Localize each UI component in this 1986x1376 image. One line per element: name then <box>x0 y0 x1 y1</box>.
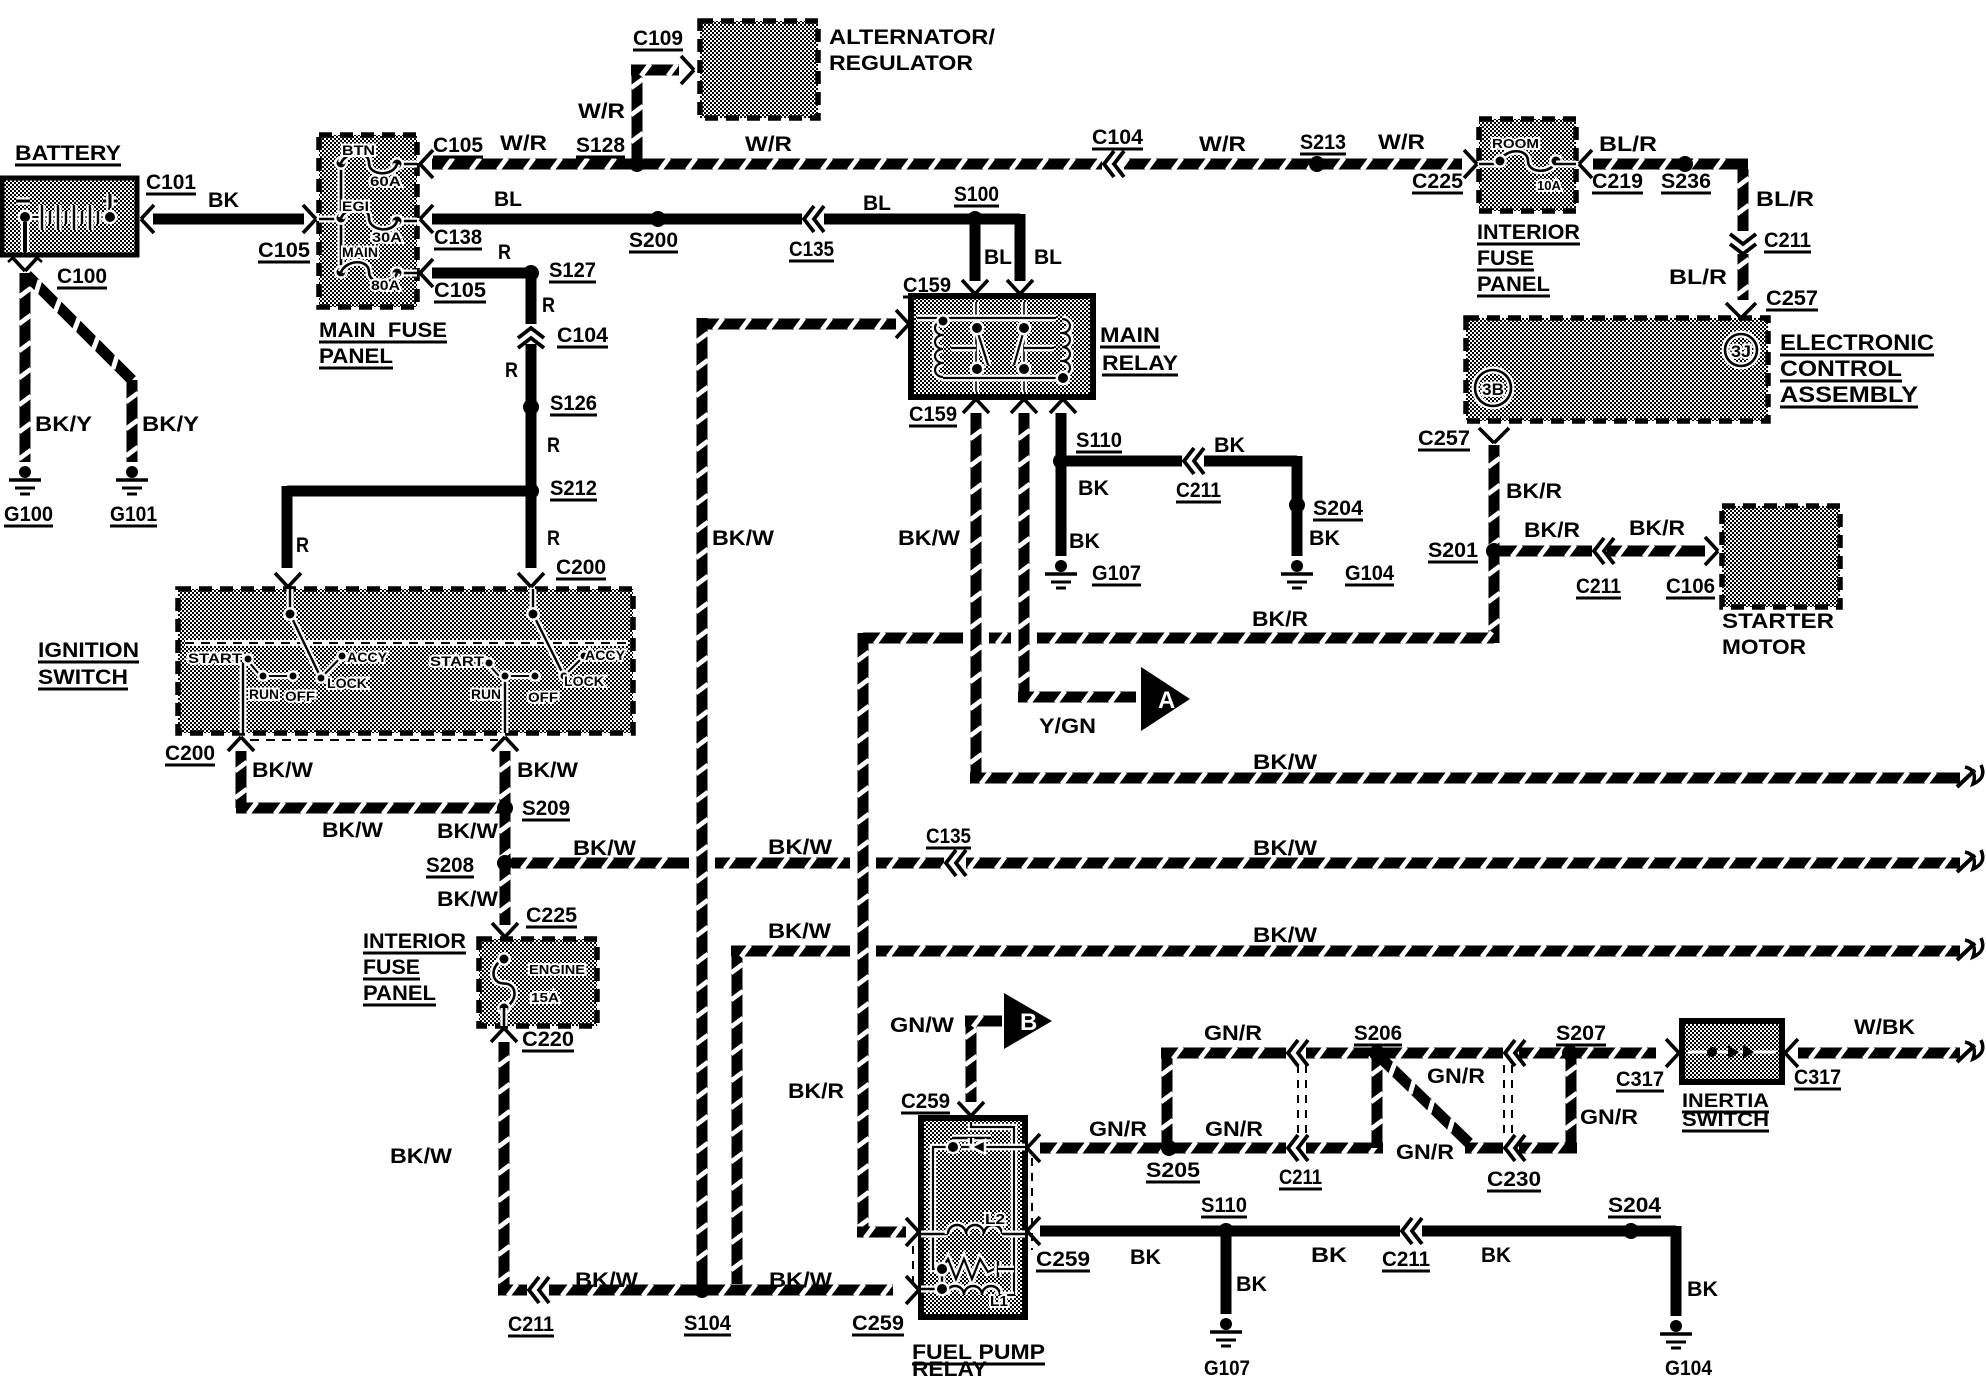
label C105 bottom <box>434 279 486 302</box>
svg-text:LOCK: LOCK <box>564 673 604 689</box>
svg-text:BK/Y: BK/Y <box>35 413 92 436</box>
svg-text:C101: C101 <box>146 171 196 194</box>
svg-text:Y/GN: Y/GN <box>1039 715 1096 738</box>
connector C317 right <box>1785 1039 1798 1067</box>
svg-text:START: START <box>188 650 243 666</box>
svg-text:BK/R: BK/R <box>788 1080 844 1103</box>
label BK/Y 1 <box>35 413 92 436</box>
label GN/R 3 <box>1205 1118 1263 1141</box>
label R 4 <box>547 434 560 457</box>
svg-text:C220: C220 <box>522 1028 574 1051</box>
label Y/GN <box>1039 715 1096 738</box>
label L1 <box>990 1293 1008 1310</box>
splice S128 <box>629 156 645 172</box>
label BK relay 4 <box>1069 530 1100 553</box>
svg-text:W/R: W/R <box>1199 133 1246 156</box>
label GN/R diagonal <box>1427 1065 1485 1088</box>
label C225 top <box>1412 170 1463 193</box>
label BK fp vert 2 <box>1687 1278 1718 1301</box>
connector C259 GN/W <box>958 1102 984 1116</box>
svg-text:G107: G107 <box>1092 562 1141 585</box>
ignition switch pole 1 <box>242 589 348 733</box>
label START 1 <box>188 650 243 666</box>
connector C104 inline on R <box>518 324 544 348</box>
svg-text:ENGINE: ENGINE <box>529 962 585 977</box>
connector C105 main fuse panel left <box>303 205 316 233</box>
label BK/W run2 left <box>573 837 636 860</box>
label S209 <box>522 797 570 820</box>
label R 2 <box>542 294 555 317</box>
interior fuse panel box (top right) <box>1479 119 1576 211</box>
svg-text:S128: S128 <box>576 134 625 157</box>
wire BL left drop to main relay <box>970 219 981 281</box>
svg-text:C104: C104 <box>557 324 608 347</box>
label BK/W bottom right <box>769 1269 832 1292</box>
svg-text:BK/W: BK/W <box>437 820 498 843</box>
svg-text:IGNITION: IGNITION <box>38 639 139 662</box>
connector C230 dashes <box>1504 1065 1512 1140</box>
connector C225 engine fuse <box>492 923 518 937</box>
splice S126 <box>523 399 539 415</box>
svg-text:R: R <box>296 534 309 557</box>
connector C211 dashes (GN/R) <box>1298 1065 1306 1140</box>
svg-text:OFF: OFF <box>285 688 315 704</box>
wire BK S110 to S204 <box>1061 448 1297 505</box>
label W/BK <box>1854 1016 1915 1039</box>
svg-text:C230: C230 <box>1487 1168 1541 1191</box>
connector C159 pin BL right <box>1007 280 1033 294</box>
label C211 gnr <box>1279 1166 1322 1189</box>
fuse ROOM 10A element <box>1479 151 1576 171</box>
svg-text:C159: C159 <box>903 274 951 297</box>
wire W/R to alternator <box>631 64 679 160</box>
wire BL right drop to main relay <box>975 214 1020 281</box>
label S126 <box>550 392 597 415</box>
battery cells symbol <box>16 194 117 252</box>
label ACCY 2 <box>585 647 626 663</box>
label C104 mid <box>557 324 608 347</box>
svg-text:R: R <box>547 434 560 457</box>
svg-text:BK/W: BK/W <box>322 819 383 842</box>
ignition switch pole 2 <box>483 589 590 733</box>
svg-text:RUN: RUN <box>471 686 501 702</box>
label GN/R riser <box>1580 1106 1638 1129</box>
label C219 <box>1592 170 1643 193</box>
wire BK/W long run 2 <box>512 850 1983 876</box>
svg-text:BK: BK <box>1236 1273 1267 1296</box>
label BL/R 1 <box>1599 133 1657 156</box>
label L2 <box>985 1211 1005 1228</box>
connector C259 BK <box>1027 1217 1040 1245</box>
svg-text:80A: 80A <box>371 277 400 293</box>
svg-text:R: R <box>505 359 518 382</box>
label BK/R 3 <box>1629 517 1685 540</box>
svg-text:BK: BK <box>1130 1246 1161 1269</box>
connector C106 <box>1705 537 1718 565</box>
splice S206 <box>1369 1045 1385 1061</box>
svg-text:BK/W: BK/W <box>769 1269 832 1292</box>
svg-text:BK/W: BK/W <box>437 888 498 911</box>
svg-text:W/BK: W/BK <box>1854 1016 1915 1039</box>
svg-text:C317: C317 <box>1616 1068 1664 1091</box>
connector C257 to ECA <box>1726 303 1756 318</box>
label BK/Y 2 <box>142 413 199 436</box>
svg-text:PANEL: PANEL <box>319 345 393 368</box>
starter motor box <box>1722 506 1840 607</box>
label C211 fp <box>1382 1248 1430 1271</box>
label OFF 2 <box>528 689 558 705</box>
label S110 lower <box>1201 1194 1247 1217</box>
label C317 left <box>1616 1068 1664 1091</box>
svg-text:BL/R: BL/R <box>1599 133 1657 156</box>
fuse MAIN 80A element <box>341 262 397 282</box>
svg-text:S207: S207 <box>1556 1022 1606 1045</box>
connector C317 left <box>1666 1039 1679 1067</box>
wire BK/W S209 to S208 <box>499 808 511 863</box>
wire BK/Y to G101 <box>27 275 138 462</box>
svg-text:BK: BK <box>1481 1244 1511 1267</box>
svg-text:BK: BK <box>1687 1278 1718 1301</box>
fuel pump relay coils L1 L2 and contact <box>921 1122 1025 1296</box>
label S236 <box>1661 170 1711 193</box>
interior fuse panel box (engine fuse) <box>479 939 597 1026</box>
label BK/W run2 mid <box>768 836 832 859</box>
label BK fp 3 <box>1481 1244 1511 1267</box>
svg-text:PANEL: PANEL <box>363 982 436 1005</box>
svg-text:FUSE: FUSE <box>363 956 420 979</box>
label S200 <box>629 229 678 252</box>
wire BK S204 to G104 <box>1292 505 1303 556</box>
fuse 30A value <box>372 229 402 245</box>
ECA terminal 3B <box>1475 370 1511 406</box>
label C109 <box>633 27 683 50</box>
ground G107 lower <box>1210 1318 1242 1346</box>
label BK fp vert 1 <box>1236 1273 1267 1296</box>
label C105 left <box>258 239 310 262</box>
svg-text:S208: S208 <box>426 854 474 877</box>
connector C259 BK/R <box>906 1218 919 1246</box>
svg-text:S206: S206 <box>1354 1022 1402 1045</box>
wire GN/R diagonal from S206 <box>1381 1058 1469 1143</box>
svg-text:C211: C211 <box>1764 229 1811 252</box>
wire W/R main fuse panel to interior fuse panel <box>432 151 1462 177</box>
svg-text:C211: C211 <box>1382 1248 1430 1271</box>
label BK/W S209S208 <box>437 820 498 843</box>
svg-text:C259: C259 <box>1036 1248 1090 1271</box>
splice S207 <box>1562 1045 1578 1061</box>
ground G104 upper <box>1281 560 1313 588</box>
label GN/R gap <box>1396 1141 1454 1164</box>
svg-text:ACCY: ACCY <box>347 649 388 665</box>
label C225 mid <box>526 904 577 927</box>
label G104 upper <box>1345 562 1394 585</box>
svg-text:MAIN: MAIN <box>342 244 378 260</box>
svg-text:BK/W: BK/W <box>768 836 832 859</box>
main fuse panel bus <box>319 156 417 280</box>
label START 2 <box>430 653 485 669</box>
label S104 <box>684 1312 731 1335</box>
label MAIN RELAY <box>1100 324 1178 375</box>
main relay box U1 <box>911 296 1093 397</box>
label BK/W run2 right <box>1253 837 1317 860</box>
fuse EGI 30A element <box>341 208 397 229</box>
svg-text:BK/W: BK/W <box>517 759 578 782</box>
svg-text:15A: 15A <box>531 990 560 1005</box>
label C105 top <box>433 134 483 157</box>
label S205 <box>1146 1159 1200 1182</box>
svg-text:BTN: BTN <box>342 142 375 158</box>
svg-text:INTERIOR: INTERIOR <box>363 930 466 953</box>
label C257 mid <box>1418 427 1470 450</box>
connector C211 on BL/R <box>1730 232 1756 254</box>
label BK relay 2 <box>1078 477 1109 500</box>
svg-text:C317: C317 <box>1794 1066 1841 1089</box>
connector C259 GN/R <box>1027 1134 1040 1162</box>
label MAIN FUSE PANEL <box>319 319 447 368</box>
label S127 <box>549 259 596 282</box>
label C138 <box>434 226 482 249</box>
fuse 15A value <box>531 990 560 1005</box>
label C200 top <box>556 556 606 579</box>
svg-text:BL/R: BL/R <box>1669 266 1727 289</box>
svg-text:S104: S104 <box>684 1312 731 1335</box>
fuse MAIN label <box>342 244 378 260</box>
svg-text:BK/R: BK/R <box>1524 519 1580 542</box>
svg-text:G104: G104 <box>1665 1357 1712 1376</box>
label RUN 2 <box>471 686 501 702</box>
splice S208 <box>497 855 513 871</box>
svg-text:ACCY: ACCY <box>585 647 626 663</box>
label INTERIOR FUSE PANEL mid <box>363 930 466 1005</box>
svg-text:C159: C159 <box>909 403 957 426</box>
svg-text:W/R: W/R <box>578 100 625 123</box>
svg-text:C225: C225 <box>526 904 577 927</box>
splice S127 <box>523 265 539 281</box>
svg-text:START: START <box>430 653 485 669</box>
wire R S212 branch left <box>287 486 531 568</box>
battery box <box>2 178 137 255</box>
label BK/W below S208 <box>437 888 498 911</box>
label C104 top <box>1092 126 1143 149</box>
wire BK/R drop to fuel pump relay <box>857 633 906 1238</box>
svg-text:L2: L2 <box>985 1211 1005 1228</box>
svg-text:C135: C135 <box>789 238 834 261</box>
svg-text:3J: 3J <box>1731 342 1751 361</box>
wire BK/W C220 drop <box>498 1042 893 1303</box>
wire BK main relay to S110 <box>1056 413 1067 461</box>
label C159 top <box>903 274 951 297</box>
label BK fp 1 <box>1130 1246 1161 1269</box>
label S206 <box>1354 1022 1402 1045</box>
svg-text:S200: S200 <box>629 229 678 252</box>
svg-text:CONTROL: CONTROL <box>1780 356 1902 381</box>
fuel pump relay box <box>921 1118 1025 1317</box>
svg-text:ALTERNATOR/: ALTERNATOR/ <box>829 26 995 49</box>
splice S200 <box>650 211 666 227</box>
svg-text:S110: S110 <box>1201 1194 1247 1217</box>
fuse BTN label <box>342 142 375 158</box>
svg-text:C105: C105 <box>434 279 486 302</box>
svg-text:C259: C259 <box>901 1090 950 1113</box>
label S208 <box>426 854 474 877</box>
svg-text:BK: BK <box>208 189 239 212</box>
label C135 run2 <box>926 825 971 848</box>
svg-text:BK/R: BK/R <box>1506 480 1562 503</box>
connector C225 interior fuse panel <box>1464 150 1477 178</box>
svg-text:L1: L1 <box>990 1293 1008 1310</box>
connector C105 R <box>420 259 433 287</box>
label BK/R fuel drop <box>788 1080 844 1103</box>
label BK/W relay drop <box>898 527 960 550</box>
wire BK/W C159 to relay <box>696 318 896 1288</box>
wire GN/R riser S205 <box>1161 1053 1173 1148</box>
svg-text:S127: S127 <box>549 259 596 282</box>
wire BK/W S208 to C225 <box>499 863 511 925</box>
label S128 <box>576 134 625 157</box>
svg-text:GN/R: GN/R <box>1204 1022 1262 1045</box>
label C259 right <box>1036 1248 1090 1271</box>
connector C219 <box>1579 150 1592 178</box>
label BK/W bottom left <box>575 1269 638 1292</box>
label G101 <box>110 503 157 526</box>
label BK battery <box>208 189 239 212</box>
svg-text:BK/W: BK/W <box>898 527 960 550</box>
ground G100 <box>9 466 41 494</box>
label G107 upper <box>1092 562 1141 585</box>
label C220 <box>522 1028 574 1051</box>
svg-text:G107: G107 <box>1204 1357 1250 1376</box>
ground G101 <box>116 466 148 494</box>
svg-text:MOTOR: MOTOR <box>1722 636 1806 659</box>
label C100 <box>57 265 107 288</box>
label BK/W run1 <box>1253 751 1317 774</box>
svg-text:C219: C219 <box>1592 170 1643 193</box>
label S213 <box>1300 131 1346 154</box>
main relay coil and contacts <box>917 302 1070 392</box>
svg-text:OFF: OFF <box>528 689 558 705</box>
label C101 <box>146 171 196 194</box>
svg-text:C109: C109 <box>633 27 683 50</box>
svg-text:RELAY: RELAY <box>1102 352 1178 375</box>
alternator/regulator box <box>700 21 818 118</box>
svg-text:C211: C211 <box>1576 575 1621 598</box>
label BK relay 3 <box>1309 527 1340 550</box>
svg-text:INERTIA: INERTIA <box>1682 1091 1769 1112</box>
label ELECTRONIC CONTROL ASSEMBLY <box>1780 330 1934 407</box>
label LOCK 2 <box>564 673 604 689</box>
label S207 <box>1556 1022 1606 1045</box>
label BK/W big vertical <box>712 527 774 550</box>
connector C200 bottom right pin <box>492 737 518 751</box>
wire BK battery to main fuse panel <box>153 214 304 225</box>
connector C159 pin BK bottom <box>1050 399 1076 413</box>
svg-text:FUSE: FUSE <box>1477 247 1534 270</box>
label G100 <box>4 503 53 526</box>
svg-text:C105: C105 <box>433 134 483 157</box>
svg-text:W/R: W/R <box>1378 131 1425 154</box>
wire R S127 to C200 <box>526 273 537 568</box>
svg-text:G104: G104 <box>1345 562 1394 585</box>
label G107 lower <box>1204 1357 1250 1376</box>
wire GN/R riser S206 <box>1371 1053 1383 1148</box>
svg-text:C135: C135 <box>926 825 971 848</box>
wire BK/W ignition left drop <box>235 751 505 814</box>
connector C257 mid <box>1479 428 1509 443</box>
connector C200 top left pin <box>275 573 301 587</box>
svg-text:BK: BK <box>1214 434 1245 457</box>
svg-text:INTERIOR: INTERIOR <box>1477 221 1580 244</box>
splice S110 upper <box>1053 453 1069 469</box>
splice S100 <box>967 211 983 227</box>
label BL/R 2 <box>1756 188 1814 211</box>
splice S212 <box>523 483 539 499</box>
wire R C104 to S212 <box>526 344 537 568</box>
label C200 bottom <box>165 742 215 765</box>
svg-text:SWITCH: SWITCH <box>1682 1110 1769 1131</box>
wire W/BK inertia switch out <box>1798 1040 1983 1062</box>
label OFF 1 <box>285 688 315 704</box>
svg-text:S212: S212 <box>550 477 597 500</box>
label BK relay 1 <box>1214 434 1245 457</box>
label R 5 <box>547 527 560 550</box>
wire BL/R interior fuse panel to C257 <box>1593 158 1749 300</box>
label C259 top <box>901 1090 950 1113</box>
label INERTIA SWITCH <box>1682 1091 1769 1131</box>
connector C200 pin strip <box>250 739 498 741</box>
splice S204 lower <box>1623 1223 1639 1239</box>
svg-text:S126: S126 <box>550 392 597 415</box>
label C230 <box>1487 1168 1541 1191</box>
splice S209 <box>497 800 513 816</box>
svg-text:RELAY: RELAY <box>912 1358 987 1376</box>
svg-text:C100: C100 <box>57 265 107 288</box>
label BK/R 1 <box>1506 480 1562 503</box>
svg-text:PANEL: PANEL <box>1477 273 1550 296</box>
svg-text:C259: C259 <box>852 1312 904 1335</box>
svg-text:BK/R: BK/R <box>1252 608 1308 631</box>
svg-text:S100: S100 <box>954 183 999 206</box>
label BK fp 2 <box>1311 1244 1347 1267</box>
wire Y/GN main relay to arrow A <box>1018 413 1136 703</box>
label R 6 <box>296 534 309 557</box>
splice S201 <box>1486 543 1502 559</box>
wire BK/W ignition right drop <box>499 751 511 808</box>
electronic control assembly box <box>1466 318 1768 421</box>
label ACCY 1 <box>347 649 388 665</box>
svg-text:3B: 3B <box>1482 380 1504 399</box>
svg-text:STARTER: STARTER <box>1722 610 1834 633</box>
connector C200 bottom left pin <box>228 737 254 751</box>
svg-text:30A: 30A <box>372 229 402 245</box>
splice S236 <box>1677 156 1693 172</box>
svg-text:BK/W: BK/W <box>390 1145 452 1168</box>
wire BK fuel pump relay to S204 <box>1040 1218 1676 1244</box>
label INTERIOR FUSE PANEL top <box>1477 221 1580 296</box>
svg-text:S209: S209 <box>522 797 570 820</box>
svg-text:R: R <box>542 294 555 317</box>
label R 1 <box>498 241 511 264</box>
connector C138 <box>420 205 433 233</box>
label C159 bottom <box>909 403 957 426</box>
svg-text:C211: C211 <box>1279 1166 1322 1189</box>
label GN/R 2 <box>1204 1022 1262 1045</box>
wire BK/W main relay drop <box>970 413 982 778</box>
fuse BTN 60A element <box>341 153 397 173</box>
label W/R alternator branch <box>578 100 625 123</box>
connector C101 <box>141 205 154 233</box>
svg-text:GN/R: GN/R <box>1089 1118 1147 1141</box>
svg-text:BK: BK <box>1078 477 1109 500</box>
